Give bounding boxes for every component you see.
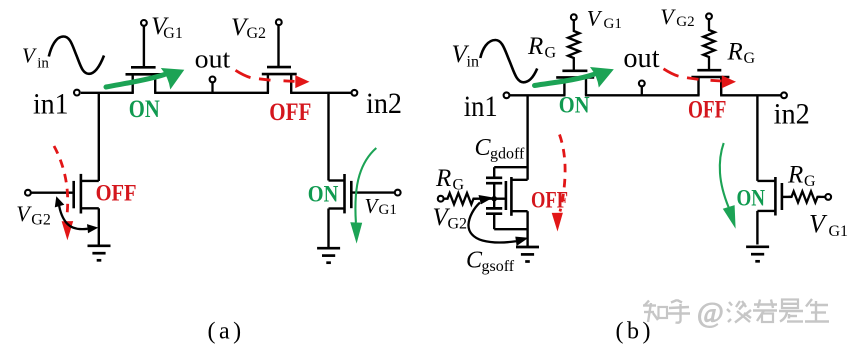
wire branch in1-to-shunt (b left): [526, 95, 528, 180]
wire gate lead (a left shunt): [31, 191, 74, 193]
resistor R_G gate resistor (b, M5): [568, 20, 579, 70]
svg-text:in2: in2: [774, 98, 810, 131]
wire out stub (b): [641, 86, 643, 95]
svg-text:G1: G1: [379, 202, 397, 218]
svg-text:V: V: [22, 44, 37, 68]
wire gate lead (a right shunt): [351, 191, 395, 193]
transistor M2 series MOSFET (a, OFF): [262, 67, 297, 93]
svg-text:gdoff: gdoff: [490, 146, 525, 163]
transistor M2 series (a, OFF) gate lead: [277, 25, 279, 66]
svg-text:@: @: [697, 297, 724, 329]
transistor M3 shunt MOSFET (a left, OFF): [74, 174, 99, 214]
svg-text:G1: G1: [163, 25, 183, 42]
node out terminal (a): [210, 77, 216, 83]
arrow green on-path through M1 (a): [106, 75, 165, 88]
svg-text:(b): (b): [616, 319, 654, 345]
svg-text:in1: in1: [33, 88, 69, 121]
svg-text:G2: G2: [31, 212, 51, 229]
svg-text:G1: G1: [604, 16, 622, 32]
svg-text:G: G: [804, 173, 816, 190]
wire out stub (a): [211, 82, 213, 93]
wire main rail (a) M2-to-in2: [290, 92, 351, 94]
label R_G (b right shunt): [787, 162, 816, 191]
capacitor C_gsoff (b left): [493, 199, 495, 208]
wire main rail (b) in1-to-M5: [509, 94, 566, 96]
wire source-to-ground (b right shunt): [756, 211, 758, 245]
svg-text:in: in: [467, 53, 479, 70]
svg-text:G1: G1: [829, 223, 849, 240]
wire branch in2-to-shunt (a right): [327, 93, 329, 181]
transistor M1 series MOSFET (a, ON): [126, 67, 163, 93]
wire main rail (b) M5-to-M6: [585, 94, 700, 96]
label V_in (b): [452, 41, 479, 71]
svg-text:R: R: [435, 165, 451, 192]
arrow green on-path through M5 (b): [535, 75, 594, 86]
node in2 terminal (b): [781, 92, 787, 98]
svg-text:R: R: [527, 33, 543, 60]
node V_G1 terminal (b right shunt): [825, 194, 831, 200]
node out terminal (b): [639, 81, 645, 87]
svg-text:G2: G2: [676, 14, 694, 30]
svg-text:out: out: [623, 43, 659, 74]
wire resistor-to-terminal (b right): [818, 196, 826, 198]
node V_G2 gate terminal (a left shunt): [25, 190, 31, 196]
node in1 (a) terminal: [74, 90, 80, 96]
arrow green on-path through M8 (b right): [720, 143, 729, 208]
svg-text:OFF: OFF: [96, 181, 137, 206]
svg-text:(a): (a): [208, 319, 245, 345]
label R_G (b left shunt): [435, 165, 465, 194]
svg-text:C: C: [466, 248, 483, 274]
resistor R_G gate resistor (b, M6): [703, 19, 714, 69]
ground (b right): [746, 247, 769, 261]
svg-text:G2: G2: [448, 216, 468, 233]
wire main rail (a) in1-to-M1: [81, 92, 134, 94]
arrow red dashed off-path through M3 (a left): [54, 146, 68, 213]
resistor R_G gate resistor (b, M8): [789, 191, 821, 202]
wire cap-loop top stub (b left): [494, 166, 527, 168]
svg-text:OFF: OFF: [269, 99, 311, 126]
ground (a left): [88, 246, 111, 260]
transistor M5 series MOSFET (b, ON): [556, 71, 594, 96]
svg-text:OFF: OFF: [688, 96, 726, 123]
wire gate lead (b right shunt): [782, 196, 792, 198]
svg-text:out: out: [195, 45, 231, 74]
wire branch in2-to-shunt (b right): [756, 95, 758, 181]
arrow red dashed off-path through M2 (a): [236, 70, 251, 77]
transistor M7 shunt MOSFET (b left, OFF): [506, 177, 528, 216]
ground (b left): [516, 247, 539, 262]
node V_G1 terminal (b) top: [571, 14, 577, 20]
svg-text:in: in: [37, 55, 49, 71]
svg-text:gsoff: gsoff: [482, 258, 515, 275]
svg-text:ON: ON: [559, 93, 590, 118]
wire cap-loop bottom stub (b left): [494, 228, 527, 230]
transistor M1 series (a, ON) gate lead: [143, 26, 145, 66]
wire main rail (b) M6-to-in2: [720, 94, 782, 96]
node V_G2 terminal (b) top: [706, 13, 712, 19]
capacitor C_gdoff (b left): [493, 167, 495, 176]
ground (a right): [317, 248, 340, 263]
svg-text:G: G: [453, 177, 465, 194]
svg-text:R: R: [787, 162, 803, 189]
arrow green on-path through M4 (a right): [355, 148, 376, 223]
node in1 (b) terminal: [504, 92, 510, 98]
wire source-to-ground (a right shunt): [327, 209, 329, 249]
source V_in symbol (a) sine wave: [49, 37, 104, 74]
svg-text:C: C: [475, 135, 492, 161]
arrow black gate-coupling C-arc (b left): [468, 203, 516, 243]
transistor M4 shunt MOSFET (a right, ON): [329, 174, 352, 213]
arrow black gate-coupling C-arc (a left): [59, 204, 88, 230]
svg-text:V: V: [365, 194, 380, 218]
svg-text:ON: ON: [308, 181, 339, 206]
transistor M8 shunt MOSFET (b right, ON): [757, 177, 782, 216]
wire resistor-to-junction (b left): [474, 198, 495, 200]
svg-text:G: G: [545, 45, 557, 62]
wire gate junction to gate bar (b left): [494, 197, 506, 199]
svg-text:ON: ON: [737, 185, 766, 210]
node R_G terminal (b left shunt): [438, 196, 444, 202]
resistor R_G gate resistor (b, M7): [445, 193, 477, 204]
wire source-to-ground (b left shunt): [526, 211, 528, 246]
source V_in symbol (b) sine wave: [480, 40, 537, 82]
label R_G (b, series M6): [727, 39, 756, 68]
arrow red dashed off-path through M6 (b): [664, 69, 679, 76]
svg-text:R: R: [727, 39, 743, 66]
node gate junction dot (b left): [492, 196, 497, 201]
wire branch in1-to-shunt (a left): [98, 93, 100, 181]
label R_G (b, series M5): [527, 33, 557, 62]
wire source-to-ground (a left shunt): [98, 208, 100, 245]
svg-text:ON: ON: [129, 96, 160, 123]
label V_G2 (b left shunt): [433, 204, 468, 233]
arrow red dashed off-path through M7 (b left): [560, 135, 566, 212]
svg-text:in2: in2: [366, 87, 402, 120]
node V_G1 gate terminal (a right shunt): [395, 190, 401, 196]
svg-text:G: G: [744, 50, 756, 67]
wire main rail (a) M1-to-M2: [154, 92, 269, 94]
transistor M6 series MOSFET (b, OFF): [691, 70, 729, 95]
node V_G1 terminal (a) top: [141, 20, 147, 26]
svg-text:G2: G2: [247, 25, 267, 42]
watermark zhihu: [643, 297, 829, 329]
svg-text:in1: in1: [464, 90, 498, 123]
node in2 terminal (a): [352, 90, 358, 96]
node V_G2 terminal (a) top: [276, 19, 282, 25]
